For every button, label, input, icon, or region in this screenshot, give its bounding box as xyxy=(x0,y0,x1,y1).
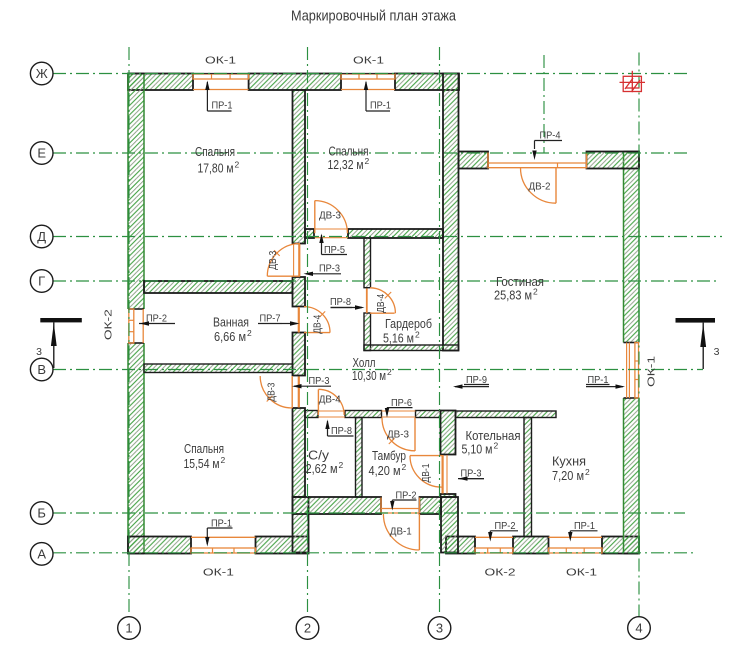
axis line door entrance xyxy=(543,55,545,153)
wall hall south segment 3 xyxy=(416,411,441,418)
svg-text:2,62 м: 2,62 м xyxy=(306,461,338,476)
wall south bedroom segment west xyxy=(128,537,191,554)
svg-text:12,32 м: 12,32 м xyxy=(328,157,364,172)
entrance opening PR-4 threshold xyxy=(488,162,587,164)
wall entrance south segment east xyxy=(420,497,442,514)
svg-text:ДВ-3: ДВ-3 xyxy=(267,382,278,401)
svg-text:2: 2 xyxy=(387,367,392,377)
door DV-4 bathroom xyxy=(304,332,330,334)
svg-text:Тамбур: Тамбур xyxy=(372,448,406,463)
wall porch column east xyxy=(441,497,458,553)
axis circle А xyxy=(30,543,53,566)
svg-text:5,16 м: 5,16 м xyxy=(383,331,414,346)
wall mid vertical thick xyxy=(443,74,459,351)
wall su tambour divider xyxy=(356,418,363,498)
wall wardrobe south xyxy=(364,345,459,351)
north wall face line across window OK-1 bedroom1 xyxy=(193,73,249,75)
wall bathroom south xyxy=(144,364,293,373)
svg-text:ДВ-1: ДВ-1 xyxy=(421,464,432,483)
svg-text:25,83 м: 25,83 м xyxy=(494,288,532,303)
porch door opening PR-2 threshold xyxy=(381,508,420,510)
wall south kitchen segment 3 xyxy=(602,537,639,554)
wall bedroom2 south segment xyxy=(348,229,443,238)
axis line Ж xyxy=(53,73,691,75)
wall south kitchen segment 1 xyxy=(446,537,475,554)
svg-text:5,10 м: 5,10 м xyxy=(462,442,493,457)
svg-text:Кухня: Кухня xyxy=(552,454,586,469)
svg-text:ДВ-4: ДВ-4 xyxy=(312,314,323,333)
svg-text:2: 2 xyxy=(221,455,226,465)
axis circle 1 xyxy=(118,617,141,640)
svg-text:Б: Б xyxy=(37,506,46,521)
window OK-2 west bathroom xyxy=(129,309,134,343)
axis circle 4 xyxy=(628,617,651,640)
svg-text:ДВ-2: ДВ-2 xyxy=(529,182,551,193)
svg-text:2: 2 xyxy=(247,328,252,338)
svg-text:Е: Е xyxy=(37,146,46,161)
wall hall south segment 2 xyxy=(345,411,382,418)
svg-text:ОК-2: ОК-2 xyxy=(104,309,115,340)
door DV-3 bedroom2 xyxy=(314,201,316,234)
door DV-3 bedroom3 xyxy=(291,376,293,408)
svg-text:ПР-1: ПР-1 xyxy=(370,101,391,112)
wall east upper xyxy=(624,152,640,343)
svg-text:ПР-3: ПР-3 xyxy=(319,264,340,275)
axis circle Д xyxy=(30,225,53,248)
axis line 4 xyxy=(638,53,640,617)
wall hall south segment 1 xyxy=(305,411,318,418)
axis circle Е xyxy=(30,142,53,165)
svg-text:ДВ-3: ДВ-3 xyxy=(319,210,341,221)
wall bathroom north xyxy=(144,281,293,293)
window OK-1 kitchen south xyxy=(549,548,603,553)
svg-text:ДВ-4: ДВ-4 xyxy=(376,293,387,312)
svg-text:3: 3 xyxy=(714,346,720,358)
svg-text:2: 2 xyxy=(235,160,240,170)
svg-text:2: 2 xyxy=(339,460,344,470)
wall west upper xyxy=(128,74,144,310)
axis circle Ж xyxy=(30,62,53,85)
door DV-4 hall xyxy=(317,389,319,415)
wall south bedroom segment east xyxy=(256,537,309,554)
axis circle Б xyxy=(30,502,53,525)
section mark right xyxy=(676,318,716,323)
window OK-1 bedroom2 north xyxy=(341,74,395,79)
wall entrance south segment west xyxy=(293,497,382,514)
svg-text:1: 1 xyxy=(125,621,132,636)
red revision mark xyxy=(620,71,646,92)
svg-text:15,54 м: 15,54 м xyxy=(184,456,220,471)
svg-text:ПР-8: ПР-8 xyxy=(330,297,351,308)
svg-text:3: 3 xyxy=(436,621,443,636)
svg-text:Д: Д xyxy=(37,229,46,244)
wall north segment east xyxy=(395,74,459,91)
window OK-1 east livingroom xyxy=(635,343,639,399)
svg-text:2: 2 xyxy=(585,467,590,477)
svg-text:ОК-1: ОК-1 xyxy=(203,568,234,579)
wall south kitchen segment 2 xyxy=(513,537,549,554)
section mark left xyxy=(40,318,82,322)
wall north segment middle xyxy=(249,74,341,91)
wall interior vertical segment 1 xyxy=(293,90,306,244)
svg-text:17,80 м: 17,80 м xyxy=(198,161,234,176)
wall interior vertical segment 2 xyxy=(293,277,306,307)
svg-text:ПР-3: ПР-3 xyxy=(309,376,330,387)
axis line 1 xyxy=(128,47,130,617)
wall east lower xyxy=(624,398,640,554)
svg-text:4,20 м: 4,20 м xyxy=(369,463,401,478)
north wall face line across window OK-1 bedroom2 xyxy=(341,73,395,75)
axis line В xyxy=(53,369,703,371)
svg-text:ОК-2: ОК-2 xyxy=(485,568,516,579)
wall wardrobe west lower xyxy=(364,313,371,351)
svg-text:3: 3 xyxy=(36,346,42,358)
axis line А xyxy=(53,552,694,554)
svg-text:ОК-1: ОК-1 xyxy=(205,56,236,67)
window OK-2 kitchen south xyxy=(475,548,513,553)
svg-text:Ванная: Ванная xyxy=(213,315,249,330)
svg-text:ПР-2: ПР-2 xyxy=(146,314,167,325)
door DV-3 bedroom1 xyxy=(267,275,300,277)
door DV-4 wardrobe xyxy=(370,312,395,314)
svg-text:В: В xyxy=(37,362,46,377)
wall livingroom north east segment xyxy=(587,152,640,169)
wall kitchen partition north xyxy=(456,411,557,418)
axis line 3 xyxy=(439,47,441,617)
svg-text:Маркировочный план этажа: Маркировочный план этажа xyxy=(291,8,457,25)
svg-text:ОК-1: ОК-1 xyxy=(566,568,597,579)
axis circle В xyxy=(30,358,53,381)
wall tambour east upper xyxy=(441,411,456,455)
svg-text:ДВ-3: ДВ-3 xyxy=(268,250,279,269)
svg-text:ОК-1: ОК-1 xyxy=(647,356,658,387)
axis line Г xyxy=(53,280,719,282)
svg-text:6,66 м: 6,66 м xyxy=(214,329,246,344)
window OK-1 bedroom3 south xyxy=(191,548,256,553)
svg-text:ДВ-1: ДВ-1 xyxy=(390,527,412,538)
svg-text:А: А xyxy=(37,547,46,562)
svg-text:ДВ-4: ДВ-4 xyxy=(319,394,341,405)
wall bedroom2 south small segment xyxy=(305,229,314,238)
svg-text:Спальня: Спальня xyxy=(184,441,224,456)
wall livingroom north west segment xyxy=(459,152,489,169)
svg-text:2: 2 xyxy=(304,621,311,636)
door DV-2 entrance xyxy=(555,168,557,204)
wall interior vertical segment 4 xyxy=(293,408,306,497)
svg-text:Г: Г xyxy=(38,274,45,289)
wall west lower xyxy=(128,343,144,554)
door DV-1 porch xyxy=(418,514,420,550)
svg-text:ДВ-3: ДВ-3 xyxy=(387,430,409,441)
door DV-1 tambour east xyxy=(410,455,442,457)
svg-text:Спальня: Спальня xyxy=(195,144,235,159)
axis circle 3 xyxy=(428,617,451,640)
wall interior vertical segment 3 xyxy=(293,333,306,376)
svg-text:2: 2 xyxy=(533,287,538,297)
svg-text:2: 2 xyxy=(402,462,407,472)
wall wardrobe west upper xyxy=(364,238,371,288)
svg-text:ПР-1: ПР-1 xyxy=(212,101,233,112)
svg-text:7,20 м: 7,20 м xyxy=(552,468,584,483)
svg-text:2: 2 xyxy=(494,441,499,451)
svg-text:ОК-1: ОК-1 xyxy=(353,56,384,67)
axis line Д xyxy=(53,236,722,238)
wall north segment west xyxy=(128,74,193,91)
wall boiler kitchen divider xyxy=(524,418,532,537)
door DV-3 tambour north xyxy=(414,418,416,451)
axis circle Г xyxy=(30,270,53,293)
svg-text:ПР-7: ПР-7 xyxy=(260,314,281,325)
axis circle 2 xyxy=(296,617,319,640)
wall tambour east lower xyxy=(441,494,456,497)
svg-text:Гардероб: Гардероб xyxy=(385,316,432,331)
axis line Е xyxy=(53,152,691,154)
svg-text:4: 4 xyxy=(635,621,642,636)
svg-text:ПР-8: ПР-8 xyxy=(331,426,352,437)
window OK-1 bedroom1 north xyxy=(193,74,249,79)
axis line Б xyxy=(53,512,685,514)
axis line 2 xyxy=(307,47,309,617)
wall porch column west xyxy=(293,497,309,553)
svg-text:2: 2 xyxy=(415,330,420,340)
svg-text:10,30 м: 10,30 м xyxy=(352,368,386,383)
svg-text:2: 2 xyxy=(365,156,370,166)
svg-text:Ж: Ж xyxy=(36,66,48,81)
